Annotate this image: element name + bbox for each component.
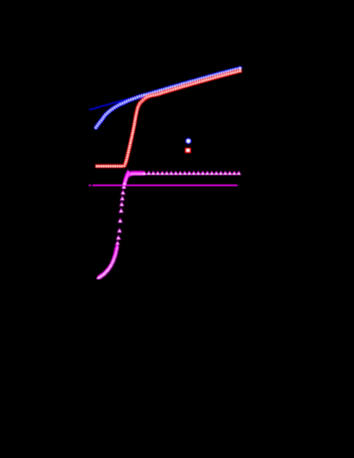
series: magenta triangles flat row: [125, 170, 241, 177]
magenta horizontal baseline: [89, 184, 91, 186]
series: red square data chain: [95, 69, 242, 168]
legend marker: red square: [185, 148, 191, 153]
series: magenta triangles descending curve: [96, 169, 131, 279]
series: blue circle data chain: [94, 66, 243, 130]
magenta flat row connecting line: [128, 174, 239, 175]
legend marker: blue circle: [185, 138, 191, 144]
fit line (blue straight asymptote): [89, 68, 239, 110]
